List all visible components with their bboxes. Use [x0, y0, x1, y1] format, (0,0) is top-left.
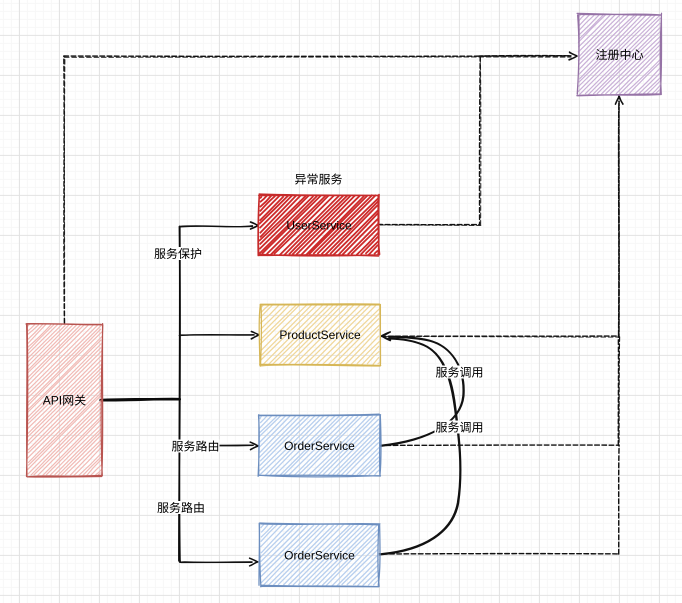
label 服务调用 lower: [435, 421, 485, 434]
wire thick API网关 to trunk junction: [101, 399, 180, 400]
box 注册中心: [577, 13, 662, 96]
wire dashed UserService right to 注册中心: [380, 56, 570, 226]
box API网关: [26, 324, 103, 477]
box UserService: [258, 194, 380, 256]
wire trunk vertical: [179, 227, 180, 561]
wire branch arrow to UserService: [180, 222, 259, 229]
wire dashed ProductService right to 注册中心 bottom: [381, 96, 623, 337]
box OrderService 2: [259, 523, 380, 587]
wire branch arrow to ProductService: [179, 331, 259, 339]
wire dashed API网关 top to 注册中心: [64, 52, 577, 323]
svg-text:API: API: [43, 393, 62, 407]
label 服务保护: [153, 247, 203, 260]
wire curved 服务调用 OrderService1 to ProductService: [381, 336, 465, 446]
label 服务路由 lower: [156, 501, 206, 514]
wire dashed OrderService2 right to 注册中心 bottom: [379, 445, 619, 554]
svg-text:ProductService: ProductService: [279, 328, 361, 342]
box ProductService: [259, 304, 381, 366]
svg-text:OrderService: OrderService: [284, 439, 355, 453]
svg-text:UserService: UserService: [286, 218, 352, 232]
label 异常服务: [295, 173, 342, 184]
wire branch arrow to OrderService2: [179, 558, 257, 566]
svg-text:OrderService: OrderService: [284, 548, 355, 562]
box OrderService 1: [258, 414, 381, 477]
wire curved 服务调用 OrderService2 to ProductService: [380, 332, 461, 555]
label 服务调用 upper: [435, 366, 485, 379]
label 服务路由 upper: [172, 440, 220, 453]
wire branch arrow to OrderService1: [179, 442, 258, 450]
wire dashed OrderService1 right to 注册中心 bottom: [381, 336, 620, 446]
